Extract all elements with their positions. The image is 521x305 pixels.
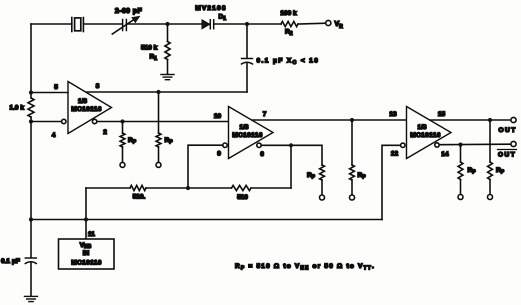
- resistor Rp (pin 15 pulldown): [488, 120, 493, 200]
- wire pin 15 to OUT: [430, 119, 511, 121]
- node junction pin3/Rp: [156, 90, 160, 94]
- resistor Rp (pin 6 pulldown): [320, 165, 325, 200]
- wire 510 to pin6 riser: [251, 187, 291, 189]
- svg-text:4: 4: [52, 132, 56, 139]
- svg-text:IN: IN: [83, 250, 90, 257]
- svg-text:RP: RP: [307, 172, 316, 181]
- svg-text:13: 13: [389, 111, 397, 118]
- pin 4 wire: [31, 121, 62, 123]
- node junction pin6/feedback: [289, 143, 293, 147]
- node junction feedback: [186, 186, 190, 190]
- svg-text:RP: RP: [468, 167, 477, 176]
- node junction bus VBB box: [84, 217, 88, 221]
- resistor R2 100k: [281, 21, 298, 26]
- node junction pin2/Rp: [120, 119, 124, 123]
- node junction pin14/Rp: [458, 143, 462, 147]
- wire pin 11: [85, 220, 87, 240]
- wire pin12 to VBB bus: [382, 145, 401, 219]
- pin 2 bubble: [92, 119, 96, 123]
- terminal OUTbar: [511, 141, 516, 146]
- resistor Rp (pin 3 pulldown): [156, 92, 161, 167]
- node junction bus left: [29, 217, 33, 221]
- pin 5 wire: [31, 92, 68, 94]
- pin 14 bubble: [435, 143, 439, 147]
- pin 6 bubble: [257, 143, 261, 147]
- resistor Rp (pin 2 pulldown): [120, 122, 125, 168]
- node junction diode/cap: [245, 22, 249, 26]
- svg-text:VR: VR: [335, 21, 344, 30]
- svg-text:OUT: OUT: [499, 127, 517, 134]
- svg-text:MC10116: MC10116: [71, 106, 102, 113]
- node pin4 junction: [29, 119, 33, 123]
- op-amp U1 1/3 MC10116: [68, 82, 112, 134]
- svg-text:RP = 510 Ω to VEE or 50 Ω to V: RP = 510 Ω to VEE or 50 Ω to VTT.: [235, 263, 375, 272]
- wire R2 to VR terminal: [298, 22, 326, 25]
- wire pin 9 feedback: [188, 145, 223, 188]
- svg-text:12: 12: [391, 151, 399, 158]
- terminal VR: [326, 20, 331, 25]
- wire 510 feedback line: [86, 187, 130, 189]
- svg-text:0.1 μF XC < 10: 0.1 μF XC < 10: [257, 58, 320, 67]
- svg-text:MV2108: MV2108: [195, 5, 226, 12]
- svg-text:D1: D1: [219, 14, 227, 23]
- crystal Y1: [72, 18, 84, 32]
- svg-text:14: 14: [441, 151, 449, 158]
- wire diode to R2: [214, 23, 281, 25]
- resistor Rp (pin 7 pulldown): [350, 120, 355, 200]
- svg-text:10: 10: [214, 113, 222, 120]
- pin 4 bubble: [62, 119, 66, 123]
- label OUT bar: [498, 150, 517, 159]
- svg-text:15: 15: [438, 111, 446, 118]
- wire varcap to diode: [126, 23, 202, 25]
- svg-text:R1: R1: [150, 54, 158, 63]
- svg-text:510: 510: [237, 194, 248, 201]
- svg-text:0.1 μF: 0.1 μF: [1, 258, 20, 265]
- wire pin2 to pin10: [97, 121, 229, 123]
- svg-text:510 k: 510 k: [141, 45, 158, 52]
- wire pin7 to pin13: [252, 119, 407, 121]
- ground bottom left: [25, 296, 38, 301]
- svg-text:1/3: 1/3: [239, 124, 248, 131]
- resistor R1 510k: [165, 24, 170, 74]
- svg-text:RP: RP: [165, 137, 174, 146]
- resistor 1.0 k: [28, 93, 34, 122]
- svg-text:RP: RP: [496, 167, 505, 176]
- svg-text:RP: RP: [128, 137, 137, 146]
- varactor diode D1 MV2108: [202, 20, 214, 29]
- capacitor 0.1uF Xc<10: [242, 24, 253, 92]
- svg-text:2: 2: [103, 129, 107, 136]
- resistor 510 (right): [232, 185, 252, 190]
- wire VBB riser left: [85, 188, 87, 220]
- svg-text:RP: RP: [358, 172, 367, 181]
- node junction crystal/R1: [165, 22, 169, 26]
- node pin5 junction: [29, 90, 33, 94]
- pin 12 bubble: [401, 143, 405, 147]
- svg-text:VBB: VBB: [80, 242, 92, 250]
- VBB IN box U1b: [59, 239, 115, 269]
- svg-text:1/3: 1/3: [417, 124, 426, 131]
- svg-text:R2: R2: [285, 29, 293, 38]
- svg-text:MC10116: MC10116: [410, 132, 441, 139]
- wire pin3 line: [86, 91, 247, 93]
- node junction pin15/Rp: [488, 118, 492, 122]
- op-amp U2 1/3 MC10116: [229, 107, 274, 159]
- wire pin6 output: [261, 145, 322, 165]
- svg-text:OUT: OUT: [498, 152, 516, 159]
- svg-text:6: 6: [260, 151, 264, 158]
- svg-text:3: 3: [96, 83, 100, 90]
- wire VBB bus: [31, 219, 382, 221]
- wire pin6 junction down: [290, 145, 292, 188]
- node junction pin7/Rp: [350, 118, 354, 122]
- svg-text:11: 11: [88, 231, 95, 238]
- svg-text:MC10116: MC10116: [71, 260, 102, 267]
- wire crystal to variable capacitor: [83, 23, 122, 25]
- resistor 510 (left): [130, 185, 146, 190]
- wire left vertical to bus: [30, 122, 32, 220]
- svg-text:1/3: 1/3: [78, 98, 87, 105]
- label 510 k R1: [141, 45, 158, 63]
- svg-text:5: 5: [54, 84, 58, 91]
- wire pin 14 to OUTbar: [439, 143, 511, 146]
- pin 9 bubble: [223, 143, 227, 147]
- svg-text:100 k: 100 k: [280, 10, 297, 17]
- svg-text:9: 9: [217, 151, 221, 158]
- svg-text:2-60 pF: 2-60 pF: [115, 8, 143, 15]
- op-amp U3 1/3 MC10116: [407, 107, 452, 159]
- svg-text:1.0 k: 1.0 k: [10, 105, 25, 112]
- resistor Rp (pin 14 pulldown): [458, 145, 463, 200]
- ground under R1: [161, 75, 174, 80]
- wire between 510 resistors: [146, 187, 232, 189]
- svg-text:7: 7: [263, 111, 267, 118]
- variable capacitor 2-60 pF: [112, 16, 140, 34]
- svg-text:MC10116: MC10116: [232, 132, 263, 139]
- capacitor 0.1uF (bypass): [25, 220, 36, 297]
- wire top line left segment: [30, 24, 32, 93]
- terminal OUT: [511, 117, 516, 122]
- svg-text:510.: 510.: [133, 194, 146, 201]
